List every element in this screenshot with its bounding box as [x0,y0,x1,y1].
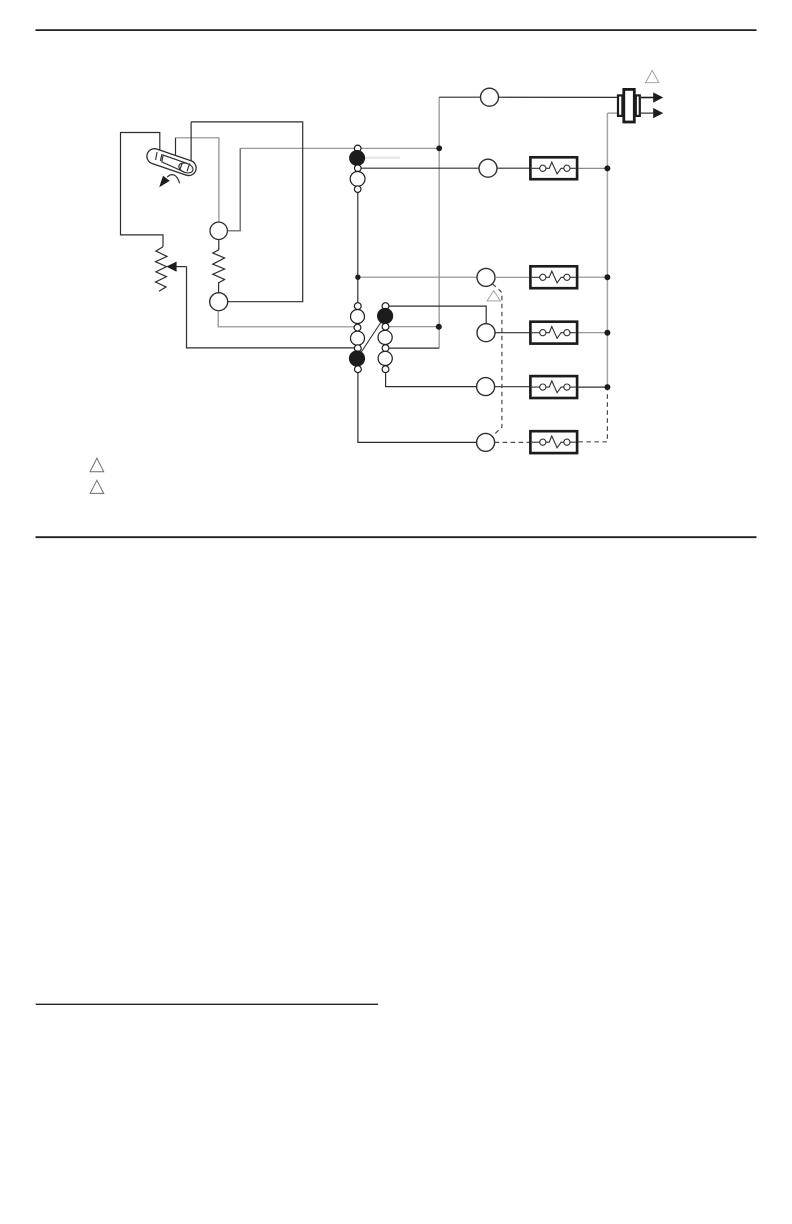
wire R2 to bus [578,276,604,278]
terminal row0 [481,88,499,106]
transformer wire bottom left [607,112,617,114]
terminal row5 [477,433,495,451]
wire row0 to transformer [499,96,617,98]
relay R2 [530,266,577,288]
wire row4 to relay R4 [495,386,529,388]
triangle note marker 1 [646,70,659,82]
wire right stack top to row3 corner [389,306,486,324]
terminal row1 [479,159,497,177]
transformer [618,89,640,122]
junction dot bus row2 [604,274,610,280]
wire central vertical [438,97,440,348]
wire to stack top small circle [240,147,354,149]
wire row1 to relay R1 [497,167,529,169]
top rule [36,29,757,31]
dashed wire R5 to bus [578,390,607,441]
switch link diagonal [357,316,385,359]
wire wiper to switch stack [187,267,355,348]
mercury switch bulb [145,147,198,178]
terminal T1 [210,222,227,239]
bus vertical [606,113,608,387]
dashed wire row5 to relay R5 [495,441,529,443]
terminal T2 [210,293,228,311]
rotation arrow [167,175,179,184]
legend triangle A [90,458,104,472]
wire T2 right up over to right electrode [191,122,303,302]
junction dot [355,275,360,280]
wire right stack small to central vertical bottom [389,347,439,349]
wire T2 bottom to stack [218,311,354,327]
junction dot bus row3 [604,330,610,336]
wire left stack vertical [357,193,359,303]
terminal row2 [477,268,495,286]
wire middle electrode to terminal T1 [176,138,219,222]
wire row2 left [361,276,477,278]
triangle note marker 2 [487,291,500,301]
ghost line [364,157,400,159]
wire T1 right up to stack top [227,148,240,231]
relay R3 [530,322,577,344]
wire mercury middle electrode [175,138,177,158]
switch stack left circles [350,145,366,373]
transformer bottom arrow [641,112,654,114]
terminal row3 [477,324,495,342]
wire row1 left [361,167,479,169]
junction dot [436,324,442,330]
wire left stack bottom to row5 [358,373,477,443]
wire row2 to relay R2 [495,276,529,278]
wire right stack bottom to row4 [386,373,477,387]
junction dot [436,145,442,151]
heat anticipator resistor [156,247,168,292]
wire R4 to bus [578,386,604,388]
wire mercury right electrode [190,122,192,162]
anticipator wiper arrow [166,262,176,272]
footnote rule [36,1003,378,1005]
relay R5 [530,431,577,453]
wire stack top small to junction [361,147,439,149]
relay R1 [530,157,577,179]
junction dot bus row4 [604,384,610,390]
legend triangle B [90,480,104,493]
terminal row4 [477,378,495,396]
switch stack right circles [378,303,393,373]
wire top corner to terminal row0 [439,96,480,98]
dashed interconnect row2 to row5 [493,284,502,436]
wire R3 to bus [578,332,604,334]
wire R1 to bus [578,167,604,169]
wire left loop to anticipator [121,133,164,247]
wire right stack small to junction [389,326,439,328]
mid rule [36,536,757,538]
resistor fixed [213,240,225,293]
junction dot bus row1 [604,165,610,171]
wire row3 to relay R3 [495,332,529,334]
relay R4 [530,376,577,398]
transformer top arrow [641,97,654,99]
